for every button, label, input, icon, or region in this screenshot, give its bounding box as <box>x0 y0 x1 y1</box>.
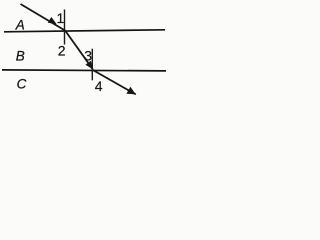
svg-text:2: 2 <box>58 43 66 59</box>
svg-text:A: A <box>15 18 25 33</box>
refracted ray in medium B <box>65 30 93 69</box>
interface line 2 (B/C boundary) <box>2 70 166 71</box>
normal N2 at second interface <box>91 49 93 81</box>
normal N1 at first interface <box>64 10 66 45</box>
svg-text:C: C <box>17 77 27 92</box>
svg-text:4: 4 <box>95 78 103 94</box>
incident ray in medium A <box>21 4 66 31</box>
svg-text:3: 3 <box>84 48 92 64</box>
interface line 1 (A/B boundary) <box>4 30 165 32</box>
arrowhead of ray in C <box>126 87 135 95</box>
background <box>0 0 168 105</box>
arrowhead of incident ray <box>48 17 57 24</box>
arrowhead of ray in B <box>85 61 92 70</box>
svg-text:B: B <box>16 49 25 64</box>
refracted ray in medium C <box>93 70 136 95</box>
svg-text:1: 1 <box>57 10 65 26</box>
